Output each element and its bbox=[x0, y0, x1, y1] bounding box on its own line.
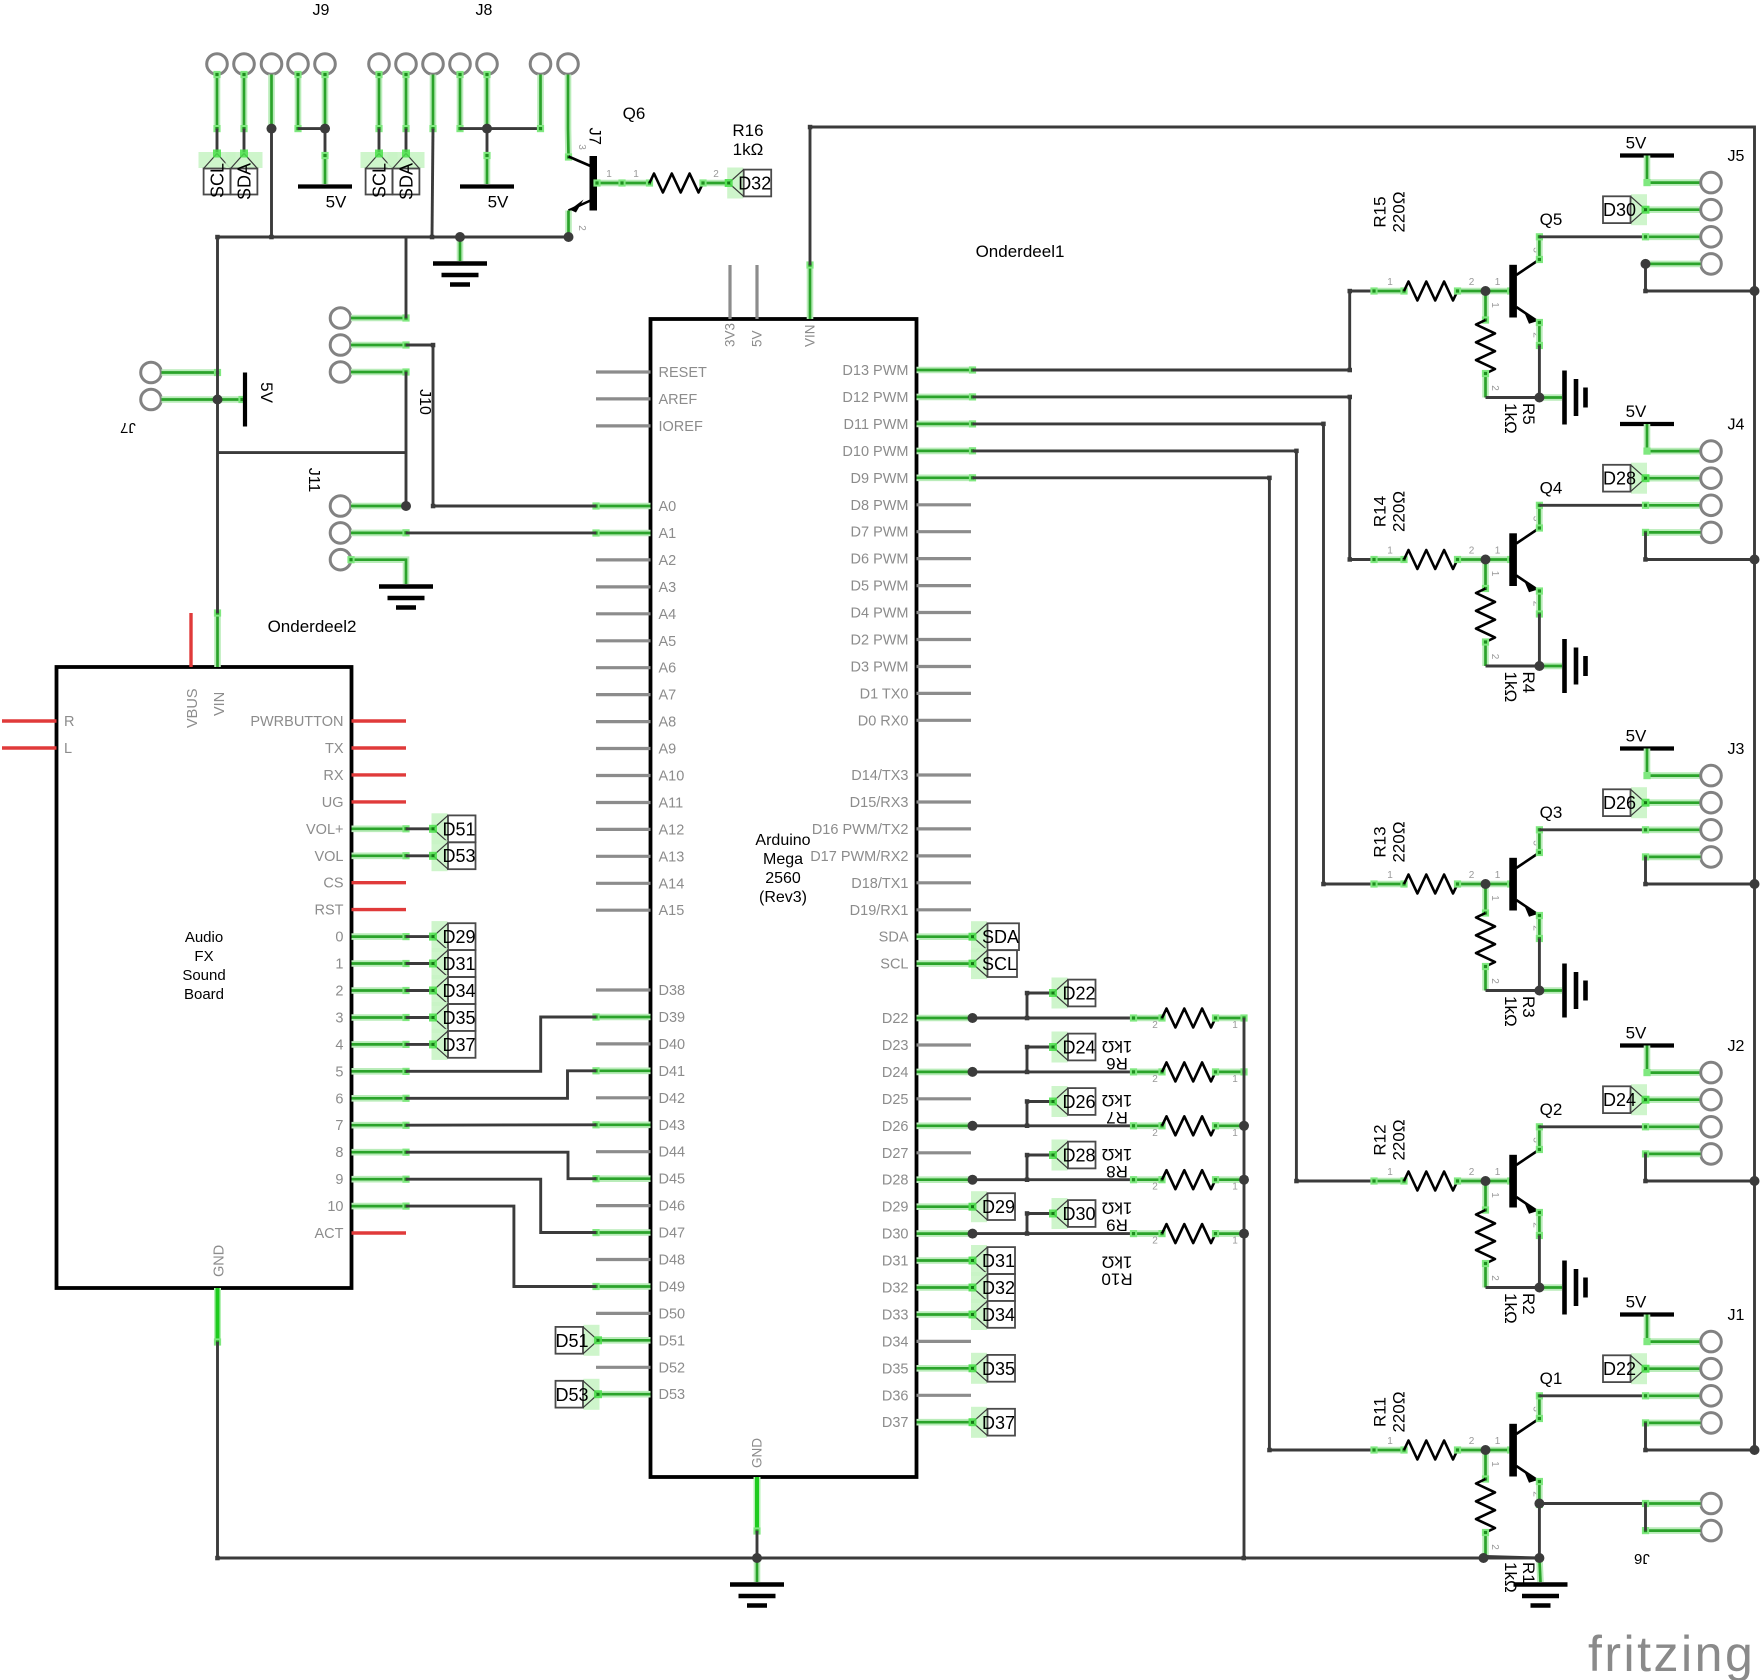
wire Q6 base bbox=[593, 179, 653, 186]
wire J8 pin5 to 5V bbox=[483, 71, 490, 132]
svg-text:D13 PWM: D13 PWM bbox=[842, 363, 908, 379]
wire J8 pin1 to SCL bbox=[375, 71, 382, 132]
svg-text:D31: D31 bbox=[882, 1254, 909, 1270]
wire J11 pin2 to A1 bbox=[351, 529, 410, 536]
svg-text:2: 2 bbox=[1469, 546, 1475, 557]
label flag D34 audio bbox=[432, 975, 448, 1006]
label SCL flag J8 bbox=[361, 152, 398, 168]
svg-text:5: 5 bbox=[335, 1064, 343, 1080]
svg-text:D33: D33 bbox=[882, 1308, 909, 1324]
svg-text:VIN: VIN bbox=[212, 692, 228, 716]
svg-text:D19/RX1: D19/RX1 bbox=[850, 903, 909, 919]
svg-text:A5: A5 bbox=[659, 634, 677, 650]
svg-text:D23: D23 bbox=[882, 1038, 909, 1054]
svg-text:D34: D34 bbox=[443, 981, 476, 1001]
label flag D24 at J2 bbox=[1642, 1096, 1701, 1103]
ground symbol Q4 bbox=[1539, 663, 1562, 670]
svg-text:R81kΩ: R81kΩ bbox=[1102, 1145, 1133, 1181]
svg-text:D51: D51 bbox=[555, 1331, 588, 1351]
svg-text:A11: A11 bbox=[659, 796, 684, 812]
svg-text:R: R bbox=[64, 714, 74, 730]
svg-text:VOL: VOL bbox=[314, 849, 343, 865]
svg-text:R11: R11 bbox=[1371, 1397, 1390, 1427]
svg-text:0: 0 bbox=[335, 930, 343, 946]
Arduino right pins D13-D0 bbox=[917, 366, 977, 373]
svg-text:J1: J1 bbox=[1728, 1307, 1745, 1324]
svg-text:A3: A3 bbox=[659, 580, 677, 596]
Audio FX left pin L bbox=[2, 746, 57, 749]
svg-text:D9 PWM: D9 PWM bbox=[851, 471, 909, 487]
svg-text:1: 1 bbox=[1387, 277, 1393, 288]
svg-text:D6 PWM: D6 PWM bbox=[851, 552, 909, 568]
svg-text:R91kΩ: R91kΩ bbox=[1102, 1199, 1133, 1235]
svg-text:D22: D22 bbox=[882, 1011, 909, 1027]
power 5V symbol J4 bbox=[1620, 422, 1674, 426]
transistor Q5 bbox=[1509, 265, 1517, 318]
svg-text:D52: D52 bbox=[659, 1360, 686, 1376]
svg-text:D46: D46 bbox=[659, 1199, 686, 1215]
label flag D31 audio bbox=[432, 948, 448, 979]
wire audio pin6 to D41 bbox=[406, 1071, 596, 1099]
svg-text:D49: D49 bbox=[659, 1280, 686, 1296]
transistor Q4 bbox=[1509, 533, 1517, 586]
svg-text:GND: GND bbox=[212, 1245, 228, 1277]
svg-text:R12: R12 bbox=[1371, 1124, 1390, 1155]
transistor Q2 bbox=[1509, 1155, 1517, 1208]
svg-text:2: 2 bbox=[1152, 1074, 1158, 1085]
svg-text:D28: D28 bbox=[1603, 469, 1636, 489]
svg-text:R71kΩ: R71kΩ bbox=[1102, 1091, 1133, 1127]
wire Q3 collector to J3 bbox=[1536, 826, 1543, 856]
wire audio pin 4 to D37 flag bbox=[406, 1043, 433, 1046]
label flag D53 at Arduino bbox=[584, 1379, 600, 1410]
svg-text:1kΩ: 1kΩ bbox=[733, 140, 764, 159]
svg-text:Board: Board bbox=[184, 986, 224, 1003]
svg-text:D31: D31 bbox=[443, 954, 476, 974]
svg-text:220Ω: 220Ω bbox=[1390, 1119, 1409, 1160]
svg-text:D32: D32 bbox=[882, 1281, 909, 1297]
wire J7 pin1 to VIN rail bbox=[162, 369, 222, 376]
label flag D53 audio bbox=[432, 840, 448, 871]
svg-text:RX: RX bbox=[323, 768, 343, 784]
wire D12 to Q4 bbox=[973, 397, 1375, 560]
ground symbol Q2 bbox=[1539, 1284, 1562, 1291]
svg-text:D0 RX0: D0 RX0 bbox=[858, 713, 909, 729]
power 5V symbol J5 bbox=[1620, 153, 1674, 157]
wire J11 pin3 to ground bbox=[347, 556, 406, 584]
svg-text:1kΩ: 1kΩ bbox=[1501, 1293, 1520, 1324]
connector J6 bbox=[1701, 1493, 1722, 1514]
svg-text:D39: D39 bbox=[659, 1010, 686, 1026]
label SDA flag J9 bbox=[226, 152, 263, 168]
label SDA flag J8 bbox=[388, 152, 425, 168]
connector J7 left bbox=[141, 362, 162, 383]
svg-text:D53: D53 bbox=[555, 1385, 588, 1405]
wire J6 pin2 bbox=[1642, 1527, 1701, 1534]
svg-text:8: 8 bbox=[335, 1145, 343, 1161]
ground symbol bottom right bbox=[1539, 1558, 1540, 1582]
svg-text:3V3: 3V3 bbox=[723, 323, 738, 347]
Arduino top pin VIN bbox=[806, 261, 813, 319]
svg-text:220Ω: 220Ω bbox=[1390, 821, 1409, 862]
svg-text:5V: 5V bbox=[326, 193, 347, 212]
svg-text:2: 2 bbox=[335, 984, 343, 1000]
svg-text:D14/TX3: D14/TX3 bbox=[851, 768, 908, 784]
svg-text:SDA: SDA bbox=[879, 930, 909, 946]
svg-text:1kΩ: 1kΩ bbox=[1501, 996, 1520, 1027]
Arduino pins D38-D53 bbox=[596, 988, 651, 991]
svg-text:2560: 2560 bbox=[765, 870, 801, 887]
wire audio pin5 to D39 bbox=[406, 1017, 596, 1071]
svg-text:J3: J3 bbox=[1728, 741, 1745, 758]
svg-text:D26: D26 bbox=[882, 1119, 909, 1135]
wire R4 bottom link bbox=[1486, 665, 1540, 668]
wire R2 bottom link bbox=[1486, 1286, 1540, 1289]
svg-text:D12 PWM: D12 PWM bbox=[842, 390, 908, 406]
svg-text:A0: A0 bbox=[659, 499, 677, 515]
svg-text:2: 2 bbox=[1489, 1275, 1500, 1281]
transistor Q1 bbox=[1509, 1424, 1517, 1477]
svg-text:R5: R5 bbox=[1519, 403, 1538, 425]
svg-text:5V: 5V bbox=[1626, 402, 1647, 421]
svg-text:IOREF: IOREF bbox=[659, 419, 703, 435]
wire D22 flag link bbox=[1027, 992, 1053, 995]
wire Q1 emitter to J6 and ground bbox=[1538, 1505, 1541, 1559]
svg-text:SCL: SCL bbox=[370, 163, 390, 198]
resistor R7 1k bbox=[1130, 1068, 1166, 1075]
svg-text:(Rev3): (Rev3) bbox=[759, 889, 807, 906]
wire D24 to resistor R7 bbox=[973, 1070, 1134, 1073]
wire J2 pin4 to VIN rail bbox=[1642, 1150, 1701, 1157]
svg-text:2: 2 bbox=[1469, 870, 1475, 881]
svg-text:PWRBUTTON: PWRBUTTON bbox=[250, 714, 343, 730]
wire Q5 emitter bbox=[1536, 319, 1543, 349]
wire audio pin10 to D49 bbox=[406, 1206, 596, 1286]
label flag D22 at J1 bbox=[1642, 1365, 1701, 1372]
svg-text:D24: D24 bbox=[1063, 1038, 1096, 1058]
transistor Q3 bbox=[1509, 858, 1517, 911]
svg-text:D51: D51 bbox=[443, 819, 476, 839]
label flag D51 at Arduino bbox=[584, 1325, 600, 1356]
svg-text:5V: 5V bbox=[1626, 1024, 1647, 1043]
svg-text:VBUS: VBUS bbox=[185, 689, 201, 729]
svg-text:D43: D43 bbox=[659, 1118, 686, 1134]
svg-text:D35: D35 bbox=[882, 1361, 909, 1377]
svg-text:1: 1 bbox=[1495, 546, 1501, 557]
svg-text:2: 2 bbox=[713, 169, 719, 180]
svg-text:D7 PWM: D7 PWM bbox=[851, 525, 909, 541]
ground symbol Q3 bbox=[1539, 987, 1562, 994]
svg-text:1kΩ: 1kΩ bbox=[1501, 1562, 1520, 1593]
svg-text:R14: R14 bbox=[1371, 496, 1390, 527]
svg-text:4: 4 bbox=[335, 1037, 343, 1053]
label flag D37 audio bbox=[432, 1029, 448, 1060]
svg-text:TX: TX bbox=[325, 741, 344, 757]
svg-text:J5: J5 bbox=[1728, 148, 1745, 165]
wire J9 pin3 down to GND rail bbox=[268, 75, 275, 133]
svg-text:J6: J6 bbox=[1634, 1550, 1650, 1567]
wire audio pin7 to D43 bbox=[406, 1123, 596, 1126]
connector J2 bbox=[1701, 1062, 1722, 1083]
svg-text:D37: D37 bbox=[982, 1413, 1015, 1433]
svg-text:D22: D22 bbox=[1063, 984, 1096, 1004]
wire D28 to resistor R9 bbox=[973, 1178, 1134, 1181]
svg-text:R16: R16 bbox=[732, 121, 763, 140]
wire Q2 emitter bbox=[1536, 1209, 1543, 1239]
svg-text:D35: D35 bbox=[982, 1359, 1015, 1379]
label flag D30 bbox=[1052, 1198, 1068, 1229]
label flag D51 audio bbox=[432, 813, 448, 844]
wire R1 bottom to ground rail bbox=[1486, 1557, 1540, 1559]
power 5V symbol J3 bbox=[1620, 746, 1674, 750]
svg-text:D17 PWM/RX2: D17 PWM/RX2 bbox=[810, 849, 908, 865]
wire D22 to resistor R6 bbox=[973, 1017, 1134, 1020]
svg-text:Audio: Audio bbox=[185, 929, 223, 946]
VIN rail top and right bbox=[810, 127, 1755, 1450]
resistor R12 220 bbox=[1370, 1177, 1407, 1184]
svg-text:1: 1 bbox=[1489, 1461, 1500, 1467]
svg-text:D45: D45 bbox=[659, 1172, 686, 1188]
connector J10 bbox=[330, 308, 351, 329]
label flag D28 bbox=[1052, 1140, 1068, 1171]
svg-text:D42: D42 bbox=[659, 1091, 686, 1107]
svg-text:1: 1 bbox=[1489, 1192, 1500, 1198]
svg-text:D1 TX0: D1 TX0 bbox=[860, 686, 909, 702]
svg-text:J7: J7 bbox=[120, 419, 136, 436]
power 5V symbol J1 bbox=[1620, 1312, 1674, 1316]
svg-text:D53: D53 bbox=[659, 1387, 686, 1403]
wire R3 bottom link bbox=[1486, 989, 1540, 992]
svg-text:1: 1 bbox=[1232, 1074, 1238, 1085]
svg-text:1: 1 bbox=[1387, 546, 1393, 557]
resistor R15 220 bbox=[1370, 287, 1407, 294]
svg-text:D32: D32 bbox=[982, 1278, 1015, 1298]
svg-text:J4: J4 bbox=[1728, 417, 1745, 434]
svg-text:D18/TX1: D18/TX1 bbox=[851, 876, 908, 892]
label flag D26 bbox=[1052, 1086, 1068, 1117]
svg-text:R2: R2 bbox=[1519, 1293, 1538, 1315]
svg-text:2: 2 bbox=[1489, 654, 1500, 660]
svg-text:2: 2 bbox=[1469, 1436, 1475, 1447]
svg-text:D3 PWM: D3 PWM bbox=[851, 660, 909, 676]
resistor R1 1k bbox=[1482, 1450, 1489, 1483]
svg-text:1: 1 bbox=[1387, 870, 1393, 881]
svg-text:1: 1 bbox=[1489, 895, 1500, 901]
Audio FX top pin VBUS bbox=[189, 613, 192, 667]
svg-text:D37: D37 bbox=[882, 1415, 909, 1431]
svg-text:220Ω: 220Ω bbox=[1390, 491, 1409, 532]
svg-text:J2: J2 bbox=[1728, 1038, 1745, 1055]
wire J8 pin4 bbox=[456, 71, 463, 132]
IC Onderdeel1 Arduino Mega 2560 box bbox=[651, 319, 917, 1477]
svg-text:3: 3 bbox=[335, 1011, 343, 1027]
svg-text:Q3: Q3 bbox=[1540, 803, 1563, 822]
svg-text:R61kΩ: R61kΩ bbox=[1102, 1037, 1133, 1073]
ground symbol top left bbox=[457, 237, 464, 261]
svg-text:2: 2 bbox=[1152, 1020, 1158, 1031]
wire D24 flag link bbox=[1027, 1046, 1053, 1049]
wire J9 pin2 to SDA bbox=[240, 71, 247, 132]
svg-text:L: L bbox=[64, 741, 72, 757]
transistor Q6 bbox=[590, 156, 598, 211]
IC Onderdeel2 Audio FX Sound Board box bbox=[57, 667, 352, 1288]
wire J7 pin2 to Q6 collector bbox=[565, 75, 572, 161]
label flag D29 audio bbox=[432, 921, 448, 952]
svg-text:2: 2 bbox=[1489, 385, 1500, 391]
svg-text:SCL: SCL bbox=[208, 163, 228, 198]
svg-text:D32: D32 bbox=[738, 174, 771, 194]
pin A0 lead bbox=[592, 502, 650, 509]
wire J9 pin5 to 5V bbox=[321, 71, 328, 132]
svg-text:D15/RX3: D15/RX3 bbox=[850, 795, 909, 811]
wire J7 pin1 stub bbox=[537, 75, 544, 133]
svg-text:5V: 5V bbox=[488, 193, 509, 212]
wire Q5 collector to J5 bbox=[1536, 233, 1543, 263]
svg-text:D40: D40 bbox=[659, 1037, 686, 1053]
svg-text:D16 PWM/TX2: D16 PWM/TX2 bbox=[812, 822, 909, 838]
svg-text:R4: R4 bbox=[1519, 672, 1538, 694]
svg-text:D35: D35 bbox=[443, 1008, 476, 1028]
svg-text:J11: J11 bbox=[305, 468, 322, 493]
svg-text:A4: A4 bbox=[659, 607, 677, 623]
svg-text:D28: D28 bbox=[1063, 1146, 1096, 1166]
svg-text:R1: R1 bbox=[1519, 1562, 1538, 1584]
resistor R16 1k bbox=[650, 174, 704, 193]
svg-text:D29: D29 bbox=[882, 1200, 909, 1216]
wire D13 to Q5 bbox=[973, 291, 1375, 370]
svg-text:D34: D34 bbox=[982, 1305, 1015, 1325]
svg-text:SCL: SCL bbox=[982, 954, 1017, 974]
Arduino bottom pin GND bbox=[753, 1477, 760, 1535]
Audio FX left pin R bbox=[2, 719, 57, 722]
wire J6 pin1 bbox=[1539, 1502, 1645, 1505]
resistor R13 220 bbox=[1370, 880, 1407, 887]
svg-text:5V: 5V bbox=[750, 330, 765, 347]
svg-text:5V: 5V bbox=[1626, 134, 1647, 153]
label flag D22 bbox=[1052, 978, 1068, 1009]
wire D30 flag link bbox=[1027, 1212, 1053, 1215]
svg-text:1: 1 bbox=[335, 957, 343, 973]
wire J1 pin4 to VIN rail bbox=[1642, 1419, 1701, 1426]
svg-text:D53: D53 bbox=[443, 846, 476, 866]
svg-text:R15: R15 bbox=[1371, 196, 1390, 227]
svg-text:D50: D50 bbox=[659, 1306, 686, 1322]
svg-text:1: 1 bbox=[633, 169, 639, 180]
svg-text:D11 PWM: D11 PWM bbox=[844, 417, 909, 433]
svg-text:D24: D24 bbox=[1603, 1090, 1636, 1110]
svg-text:5V: 5V bbox=[1626, 727, 1647, 746]
label flag D32 bbox=[971, 1272, 987, 1303]
svg-text:1: 1 bbox=[1232, 1236, 1238, 1247]
svg-text:D26: D26 bbox=[1603, 793, 1636, 813]
power 5V symbol J9 bbox=[298, 184, 352, 188]
svg-text:1kΩ: 1kΩ bbox=[1501, 403, 1520, 434]
svg-text:Q5: Q5 bbox=[1540, 210, 1563, 229]
svg-text:RESET: RESET bbox=[659, 365, 707, 381]
svg-text:J9: J9 bbox=[313, 2, 330, 19]
wire Q1 collector to J1 bbox=[1536, 1392, 1543, 1422]
svg-text:A13: A13 bbox=[659, 849, 685, 865]
label flag D29 bbox=[971, 1191, 987, 1222]
svg-text:2: 2 bbox=[1489, 978, 1500, 984]
svg-text:ACT: ACT bbox=[315, 1226, 344, 1242]
label flag D31 bbox=[971, 1245, 987, 1276]
svg-text:1: 1 bbox=[1387, 1167, 1393, 1178]
svg-text:D4 PWM: D4 PWM bbox=[851, 606, 909, 622]
svg-text:1: 1 bbox=[1495, 1436, 1501, 1447]
junction dots layer bbox=[1534, 393, 1544, 403]
Audio FX top pin VIN bbox=[214, 609, 221, 667]
ground symbol J11 bbox=[379, 587, 433, 608]
wire J9 pin1 to SCL bbox=[213, 71, 220, 132]
svg-text:D37: D37 bbox=[443, 1035, 476, 1055]
label flag D32 bbox=[727, 168, 743, 199]
wire J3 pin4 to VIN rail bbox=[1642, 853, 1701, 860]
svg-text:RST: RST bbox=[315, 903, 344, 919]
svg-text:D10 PWM: D10 PWM bbox=[842, 444, 908, 460]
svg-text:D44: D44 bbox=[659, 1145, 686, 1161]
wire D26 flag link bbox=[1027, 1100, 1053, 1103]
connector J9 bbox=[207, 54, 228, 75]
label SCL flag J9 bbox=[199, 152, 236, 168]
svg-text:AREF: AREF bbox=[659, 392, 698, 408]
wire audio pin 2 to D34 flag bbox=[406, 989, 433, 992]
wire Q1 emitter bbox=[1536, 1478, 1543, 1508]
resistor R3 1k bbox=[1482, 884, 1489, 917]
svg-text:Onderdeel2: Onderdeel2 bbox=[268, 617, 357, 636]
power 5V symbol rotated bbox=[243, 373, 247, 427]
connector J11 bbox=[330, 496, 351, 517]
wire J7 pin2 to 5V bbox=[162, 396, 246, 403]
ground symbol Q5 bbox=[1539, 394, 1562, 401]
resistor R2 1k bbox=[1482, 1181, 1489, 1214]
svg-text:1: 1 bbox=[606, 169, 612, 180]
svg-text:D26: D26 bbox=[1063, 1092, 1096, 1112]
svg-text:D22: D22 bbox=[1603, 1359, 1636, 1379]
wire audio pin 0 to D29 flag bbox=[406, 935, 433, 938]
svg-text:2: 2 bbox=[1469, 277, 1475, 288]
svg-text:3: 3 bbox=[576, 144, 587, 150]
connector J5 bbox=[1701, 172, 1722, 193]
svg-text:CS: CS bbox=[323, 876, 343, 892]
svg-text:D2 PWM: D2 PWM bbox=[851, 633, 909, 649]
VIN vertical rail x=217.5 bbox=[216, 237, 219, 613]
svg-text:Onderdeel1: Onderdeel1 bbox=[976, 242, 1065, 261]
svg-text:A1: A1 bbox=[659, 526, 677, 542]
wire D11 to Q3 bbox=[973, 424, 1375, 884]
svg-text:1: 1 bbox=[1489, 302, 1500, 308]
wire Q3 emitter bbox=[1536, 912, 1543, 942]
Arduino right pins D22-D37 bbox=[917, 1014, 977, 1021]
wire audio pin 1 to D31 flag bbox=[406, 962, 433, 965]
label flag D35 audio bbox=[432, 1002, 448, 1033]
svg-text:D51: D51 bbox=[659, 1333, 686, 1349]
wire Q2 collector to J2 bbox=[1536, 1123, 1543, 1153]
wire J5 pin4 to VIN rail bbox=[1642, 260, 1701, 267]
svg-text:R3: R3 bbox=[1519, 996, 1538, 1018]
svg-text:A10: A10 bbox=[659, 769, 685, 785]
wire R5 bottom link bbox=[1486, 396, 1540, 399]
svg-text:R101kΩ: R101kΩ bbox=[1101, 1253, 1132, 1289]
svg-text:R13: R13 bbox=[1371, 826, 1390, 857]
svg-text:6: 6 bbox=[335, 1091, 343, 1107]
connector J7 pins top right bbox=[530, 54, 551, 75]
svg-text:D8 PWM: D8 PWM bbox=[851, 498, 909, 514]
svg-text:Q1: Q1 bbox=[1540, 1369, 1563, 1388]
ground rail bottom bbox=[218, 1557, 1540, 1560]
wire audio pin 3 to D35 flag bbox=[406, 1016, 433, 1019]
ground symbol bottom center bbox=[754, 1558, 761, 1582]
